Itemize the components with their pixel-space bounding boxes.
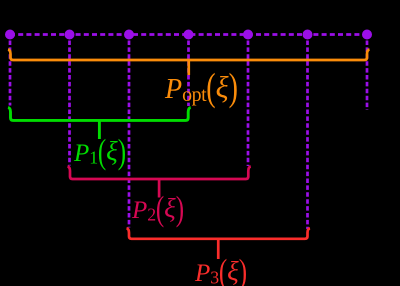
wire: vertical dashed line from node 4 xyxy=(187,41,190,107)
node 6 xyxy=(303,30,313,40)
node 1 xyxy=(5,30,15,40)
node 5 xyxy=(243,30,253,40)
wire: horizontal dashed knot line xyxy=(10,33,367,36)
label P_3(xi) xyxy=(195,259,247,286)
bracket P_1 xyxy=(8,108,191,121)
node 7 xyxy=(362,30,372,40)
wire: vertical dashed line from node 5 xyxy=(247,41,250,167)
node 2 xyxy=(65,30,75,40)
bracket P_2 xyxy=(68,167,251,180)
wire: vertical dashed line from node 6 xyxy=(306,41,309,230)
wire: vertical dashed line from node 1 xyxy=(9,41,12,106)
node 3 xyxy=(124,30,134,40)
label P_1(xi) xyxy=(74,139,126,167)
label P_opt(xi) xyxy=(165,73,238,106)
wire: vertical dashed line from node 2 xyxy=(68,41,71,166)
wire: vertical dashed line from node 3 xyxy=(128,41,131,228)
wire: vertical dashed line from node 7 xyxy=(366,41,369,111)
label P_2(xi) xyxy=(132,196,184,224)
node 4 xyxy=(184,30,194,40)
bracket P_3 xyxy=(127,228,311,239)
bracket P_opt xyxy=(8,50,370,61)
